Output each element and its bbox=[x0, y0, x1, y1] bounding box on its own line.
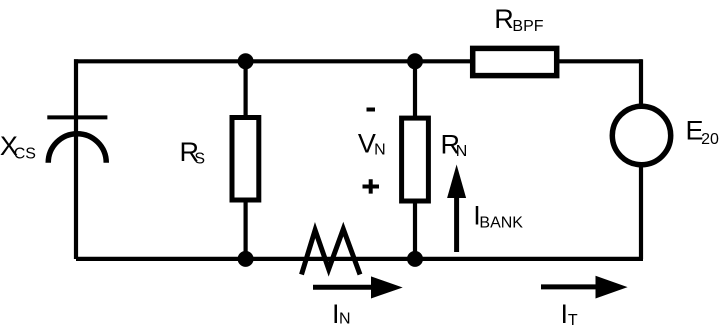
svg-text:N: N bbox=[456, 143, 468, 160]
source E20 bbox=[612, 106, 670, 164]
svg-text:BPF: BPF bbox=[512, 18, 543, 35]
label minus of VN bbox=[367, 108, 376, 112]
capacitor X_CS curved plate bbox=[48, 134, 106, 163]
svg-text:BANK: BANK bbox=[479, 215, 523, 232]
noise zigzag on bottom rail bbox=[302, 229, 361, 275]
wire: right vertical branch through E20 bbox=[639, 59, 643, 259]
node dot top RS bbox=[238, 53, 254, 69]
svg-text:R: R bbox=[494, 4, 514, 34]
resistor RN bbox=[402, 118, 429, 201]
resistor R_BPF bbox=[473, 48, 557, 75]
label plus of VN bbox=[363, 179, 380, 193]
node dot bottom RN bbox=[407, 251, 423, 267]
node dot bottom RS bbox=[238, 251, 254, 267]
capacitor X_CS plate bbox=[47, 115, 107, 119]
resistor RS bbox=[232, 118, 259, 201]
svg-text:S: S bbox=[194, 151, 205, 168]
svg-text:N: N bbox=[339, 311, 351, 328]
svg-text:CS: CS bbox=[14, 145, 36, 162]
wire: left vertical branch through X_CS bbox=[74, 59, 78, 259]
arrow I_N bbox=[313, 285, 374, 290]
wire: bottom rail bbox=[76, 257, 643, 261]
svg-text:I: I bbox=[561, 299, 569, 329]
wire: RN branch vertical bbox=[413, 61, 417, 259]
node dot top RN bbox=[407, 53, 423, 69]
wire: top rail from left corner to R_BPF bbox=[74, 59, 642, 63]
arrow I_BANK bbox=[454, 196, 459, 252]
arrow I_T bbox=[541, 284, 599, 289]
svg-text:T: T bbox=[568, 312, 578, 329]
svg-text:N: N bbox=[374, 142, 386, 159]
wire: RS branch vertical bbox=[244, 61, 248, 259]
svg-text:20: 20 bbox=[701, 131, 719, 148]
